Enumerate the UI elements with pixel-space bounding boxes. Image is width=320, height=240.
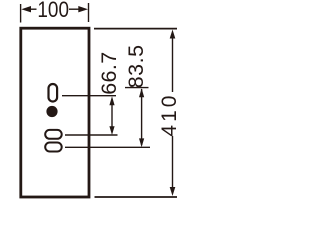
svg-text:410: 410 — [158, 93, 181, 137]
slot hole 2 — [45, 143, 62, 152]
leader from oval — [62, 95, 116, 97]
svg-text:83.5: 83.5 — [124, 44, 148, 88]
leader from slot 2 — [65, 146, 150, 148]
83.5 top bar — [125, 87, 149, 89]
svg-text:66.7: 66.7 — [97, 51, 121, 94]
dim line 66.7 — [111, 99, 113, 132]
dim line 100 left arrow — [21, 6, 31, 12]
extension tick right (100 dim) — [88, 3, 90, 22]
extension tick left (100 dim) — [20, 4, 22, 23]
slot hole 1 — [45, 130, 62, 139]
svg-text:100: 100 — [37, 0, 69, 22]
dim line 410 — [172, 36, 174, 92]
leader from slot 1 — [65, 134, 118, 136]
top extension line (410 dim) — [94, 28, 177, 30]
dim line 83.5 — [141, 89, 143, 145]
dim line 100 right arrow — [78, 6, 88, 12]
oval mounting hole — [49, 84, 58, 102]
bottom extension line (410 dim) — [95, 196, 178, 198]
wiring hole (filled circle) — [46, 106, 57, 117]
fixture outline rectangle — [21, 28, 89, 197]
